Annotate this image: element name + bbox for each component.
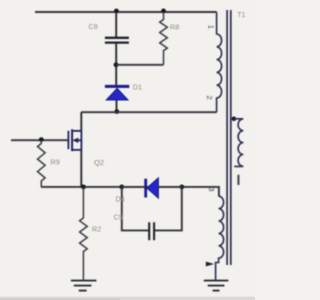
capacitor C8 <box>105 38 129 43</box>
svg-text:R9: R9 <box>51 158 60 167</box>
wire gate lead <box>11 139 68 141</box>
bottom edge shading <box>0 297 255 300</box>
wire mid rail drain-to-T1 <box>81 111 216 113</box>
node junction D4 cathode/bottom rail <box>179 185 184 190</box>
resistor R2 <box>80 187 88 280</box>
node junction C8/R8 link <box>114 62 119 67</box>
wire D4 right lead <box>158 186 181 188</box>
wire C5 left branch <box>122 187 149 231</box>
ground (R2) <box>71 281 97 291</box>
transformer T1 primary winding pins 1-2 <box>217 12 222 112</box>
diode D4 <box>144 178 158 198</box>
transformer T1 auxiliary winding pin 3 <box>216 196 224 280</box>
svg-text:Q2: Q2 <box>94 158 104 167</box>
node polarity dot secondary <box>232 117 237 122</box>
wire Q2 drain lead <box>80 112 82 131</box>
svg-text:D4: D4 <box>116 195 125 204</box>
wire Q2 source lead <box>80 150 82 187</box>
wire D4 left lead <box>122 186 145 188</box>
wire bottom rail <box>41 187 219 196</box>
node arrow aux winding return <box>206 262 214 267</box>
node junction D1/mid rail <box>114 109 119 114</box>
resistor R8 <box>160 12 168 65</box>
node junction R8/top-rail <box>161 9 166 14</box>
resistor R9 <box>38 140 46 187</box>
pin mark secondary <box>237 175 239 185</box>
node junction R2/bottom rail <box>81 185 86 190</box>
wire C8 top lead <box>115 12 117 37</box>
node junction gate/R9 <box>39 137 44 142</box>
transformer T1 secondary winding (right) <box>234 119 243 167</box>
wire top rail <box>35 11 217 13</box>
svg-text:R2: R2 <box>92 225 101 234</box>
svg-text:1: 1 <box>206 25 215 29</box>
diode D1 <box>105 85 129 100</box>
ground (T1) <box>204 281 229 291</box>
svg-text:C5: C5 <box>114 213 123 222</box>
node junction D4 anode/bottom rail <box>119 185 124 190</box>
wire C5 right branch <box>154 187 181 231</box>
transistor Q2 (N-MOSFET) <box>68 129 81 151</box>
svg-text:2: 2 <box>205 95 214 99</box>
wire C8 bottom lead to D1 <box>115 43 117 85</box>
svg-text:T1: T1 <box>237 12 245 19</box>
svg-text:D1: D1 <box>133 83 142 92</box>
capacitor C5 <box>149 222 154 240</box>
node junction C8/top-rail <box>114 9 119 14</box>
wire D1 bottom lead <box>116 100 118 112</box>
wire R8-to-C8 link <box>116 64 163 66</box>
svg-text:3: 3 <box>207 187 216 191</box>
svg-text:C8: C8 <box>89 22 98 31</box>
svg-text:R8: R8 <box>170 23 179 32</box>
transformer T1 core <box>227 10 231 265</box>
